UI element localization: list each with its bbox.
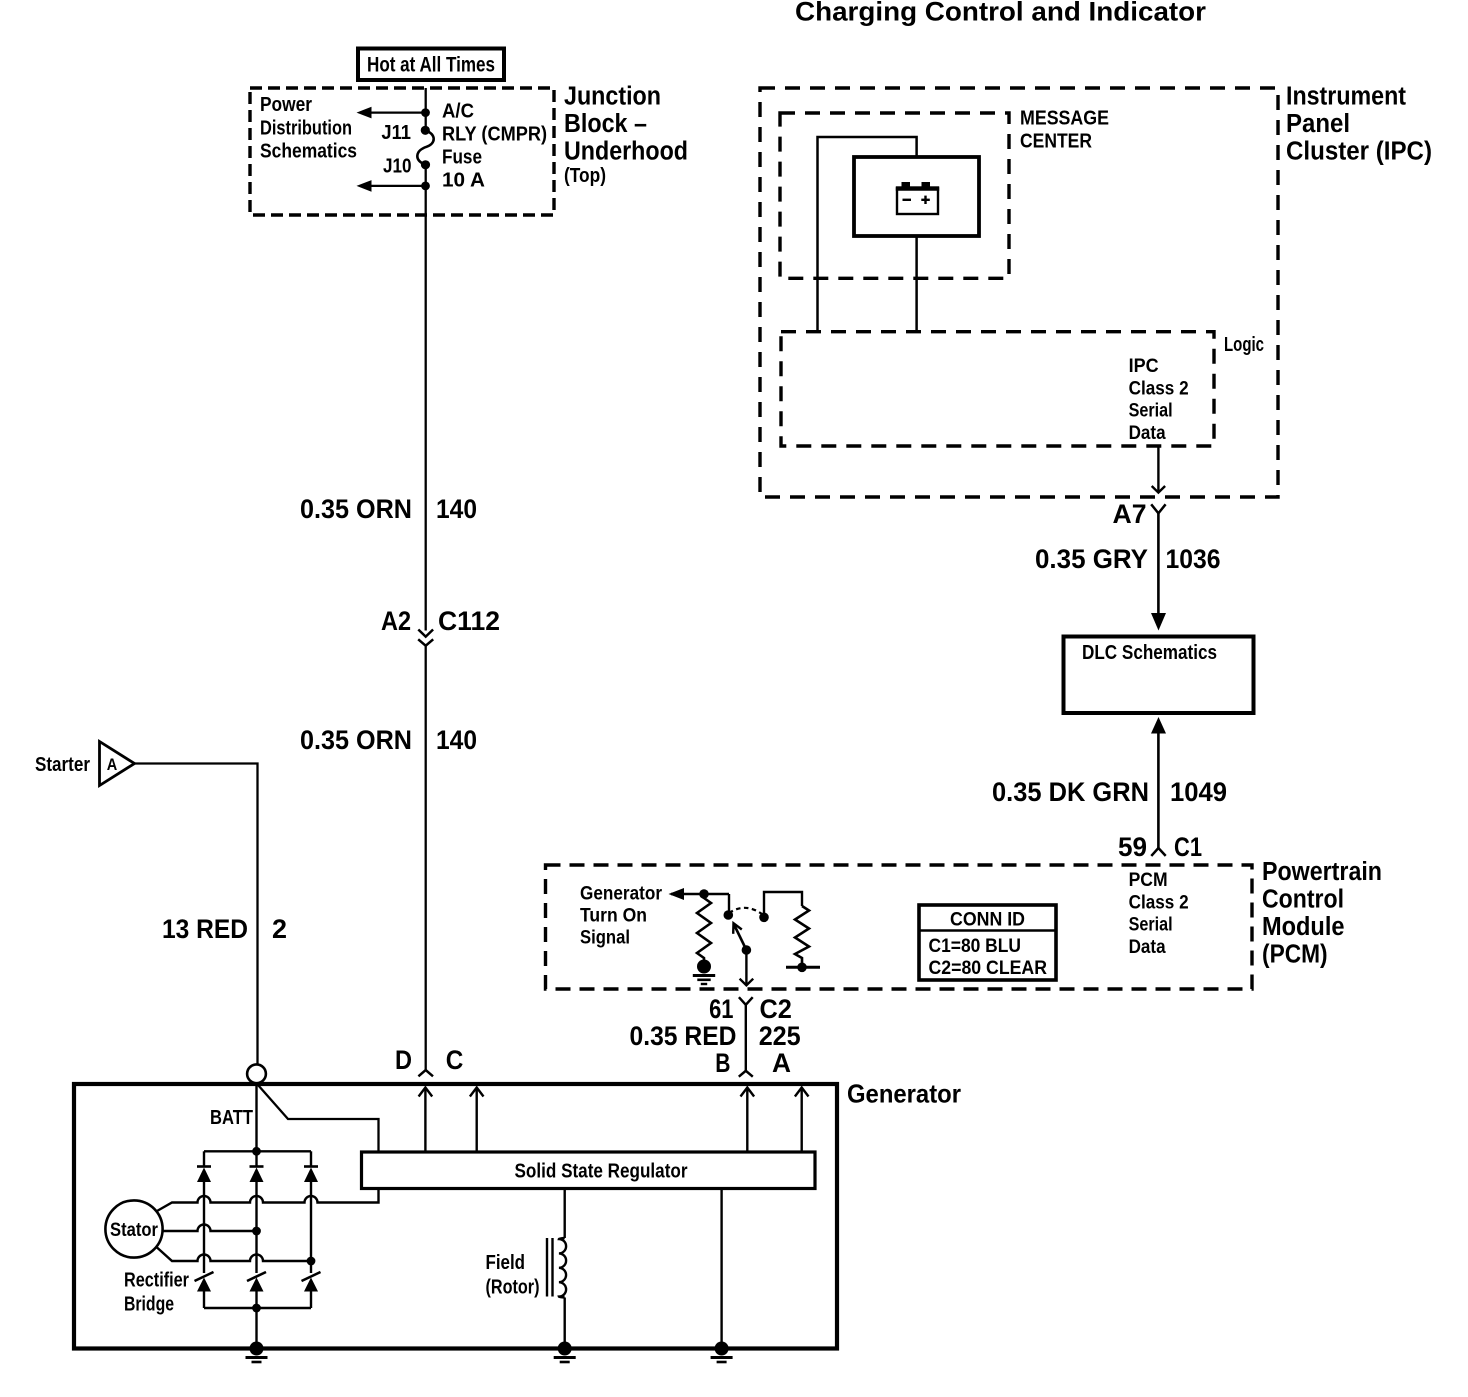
svg-text:Bridge: Bridge	[124, 1294, 174, 1316]
junction block dashed box	[250, 88, 554, 215]
svg-text:Turn On: Turn On	[580, 906, 647, 927]
svg-text:0.35 DK GRN: 0.35 DK GRN	[992, 777, 1149, 807]
svg-text:0.35 ORN: 0.35 ORN	[300, 725, 412, 755]
label Rectifier Bridge	[124, 1270, 189, 1316]
wire to switch left contact	[728, 894, 730, 915]
node fuse top	[421, 108, 430, 135]
svg-text:140: 140	[436, 725, 477, 755]
svg-text:59: 59	[1118, 832, 1147, 862]
connector 61 C2 below PCM	[739, 997, 753, 1005]
label Junction Block - Underhood (Top)	[564, 83, 688, 188]
label A7	[1113, 499, 1147, 529]
terminal circle BATT stud	[247, 1064, 266, 1083]
wire regulator arrow B	[741, 1088, 755, 1153]
battery telltale box	[854, 157, 979, 236]
svg-text:A: A	[772, 1048, 791, 1078]
svg-text:140: 140	[436, 494, 477, 524]
label J10	[383, 156, 412, 178]
svg-text:Data: Data	[1129, 423, 1166, 444]
label PCM Class 2 Serial Data	[1129, 870, 1189, 958]
svg-text:Fuse: Fuse	[442, 147, 482, 169]
terminal bar at R2 bottom	[786, 963, 820, 973]
svg-text:J11: J11	[381, 122, 411, 144]
label BATT	[210, 1107, 253, 1129]
title Charging Control and Indicator	[795, 0, 1206, 27]
svg-text:Control: Control	[1262, 886, 1344, 914]
node fuse bottom	[421, 160, 430, 190]
diode D3 top	[304, 1151, 318, 1273]
battery symbol	[896, 182, 939, 214]
svg-text:Rectifier: Rectifier	[124, 1270, 189, 1292]
switch motion dashed arc	[729, 908, 764, 916]
wire center column bottom	[255, 1308, 257, 1349]
wire label 0.35 RED 225	[630, 1021, 801, 1051]
svg-text:Cluster (IPC): Cluster (IPC)	[1286, 137, 1432, 165]
ground field	[554, 1342, 576, 1363]
connector A7 at IPC edge	[1151, 504, 1165, 513]
svg-text:C112: C112	[438, 606, 500, 636]
diode D4 bottom avalanche	[195, 1272, 214, 1308]
svg-text:C2=80 CLEAR: C2=80 CLEAR	[929, 958, 1048, 979]
wire generator turn on signal with arrow	[669, 888, 730, 900]
label MESSAGE CENTER	[1020, 108, 1109, 153]
label A2 C112	[381, 606, 500, 636]
ground at R1	[693, 960, 715, 985]
wire A7 to DLC with arrow	[1151, 513, 1166, 630]
wire branch to J10	[357, 180, 426, 192]
svg-text:0.35 ORN: 0.35 ORN	[300, 494, 412, 524]
label A/C RLY (CMPR) Fuse 10 A	[442, 101, 547, 192]
svg-text:CONN ID: CONN ID	[950, 910, 1025, 931]
wire battery bottom to logic	[915, 236, 918, 332]
label 59 C1	[1118, 832, 1202, 862]
label IPC Class 2 Serial Data	[1129, 356, 1189, 444]
svg-text:1049: 1049	[1170, 777, 1227, 807]
svg-text:2: 2	[272, 914, 287, 944]
svg-text:61: 61	[709, 994, 733, 1024]
wire battery left loop	[818, 137, 917, 332]
diode D2 top	[250, 1151, 264, 1273]
wire regulator right ground leg	[720, 1189, 722, 1349]
svg-text:Serial: Serial	[1129, 915, 1173, 936]
svg-text:Power: Power	[260, 94, 312, 116]
label B / A	[715, 1048, 791, 1078]
field rotor coil L1	[547, 1189, 566, 1349]
node at resistor R1 top	[699, 889, 709, 899]
hot-at-all-times box	[358, 49, 504, 81]
svg-text:MESSAGE: MESSAGE	[1020, 108, 1109, 130]
svg-text:DLC Schematics: DLC Schematics	[1082, 642, 1217, 664]
svg-text:PCM: PCM	[1129, 870, 1168, 891]
svg-text:0.35 GRY: 0.35 GRY	[1035, 544, 1148, 574]
generator box	[74, 1084, 837, 1349]
connector 59 C1 at PCM edge	[1151, 848, 1165, 856]
svg-text:Class 2: Class 2	[1129, 378, 1189, 399]
resistor R1	[697, 894, 711, 960]
svg-text:C1=80 BLU: C1=80 BLU	[929, 936, 1022, 957]
wire BATT stud to regulator	[258, 1085, 379, 1152]
switch blade with arrow tip	[733, 923, 746, 950]
wire PCM to DLC with arrow	[1151, 717, 1166, 848]
node switch pivot	[742, 945, 752, 955]
svg-text:Generator: Generator	[847, 1079, 961, 1109]
diode D5 bottom avalanche	[247, 1272, 266, 1308]
svg-text:1036: 1036	[1166, 544, 1221, 574]
label J11	[381, 122, 411, 144]
svg-text:B: B	[715, 1048, 730, 1078]
wire logic to IPC edge with arrow	[1152, 446, 1165, 493]
svg-text:C2: C2	[760, 994, 792, 1024]
svg-text:Class 2: Class 2	[1129, 892, 1189, 913]
wire regulator arrow A	[795, 1088, 809, 1153]
svg-text:10 A: 10 A	[442, 170, 485, 192]
stator circle	[105, 1200, 162, 1257]
svg-text:IPC: IPC	[1129, 356, 1159, 377]
svg-text:225: 225	[759, 1021, 801, 1051]
svg-text:Signal: Signal	[580, 928, 630, 949]
svg-text:Powertrain: Powertrain	[1262, 858, 1382, 886]
wire label 0.35 DK GRN 1049	[992, 777, 1227, 807]
svg-text:Distribution: Distribution	[260, 118, 352, 140]
svg-text:0.35 RED: 0.35 RED	[630, 1021, 737, 1051]
label Power Distribution Schematics	[260, 94, 357, 163]
svg-text:A2: A2	[381, 606, 411, 636]
svg-text:(PCM): (PCM)	[1262, 941, 1328, 969]
wire branch to J11	[357, 107, 426, 119]
connector C112 inline	[418, 630, 433, 646]
wire label 0.35 ORN 140 upper	[300, 494, 477, 524]
DLC Schematics box	[1064, 637, 1254, 714]
svg-text:Starter: Starter	[35, 754, 90, 776]
svg-text:Logic: Logic	[1224, 334, 1264, 356]
svg-text:J10: J10	[383, 156, 412, 178]
svg-text:Hot at All Times: Hot at All Times	[367, 54, 495, 77]
svg-text:Solid State Regulator: Solid State Regulator	[515, 1161, 688, 1183]
rectifier top bus	[204, 1147, 311, 1156]
solid state regulator box	[362, 1152, 816, 1189]
wire center column top	[255, 1084, 257, 1152]
svg-text:A: A	[107, 756, 118, 774]
PCM dashed box	[546, 865, 1253, 989]
resistor R2	[795, 906, 809, 967]
wire 61 to generator B	[745, 1005, 747, 1071]
message center dashed box	[780, 113, 1009, 278]
svg-text:Underhood: Underhood	[564, 138, 688, 166]
svg-text:Schematics: Schematics	[260, 141, 357, 163]
stator phase wire 3	[157, 1248, 315, 1266]
wire regulator arrow D	[419, 1088, 433, 1153]
svg-text:13 RED: 13 RED	[162, 914, 248, 944]
svg-text:Charging Control and Indicator: Charging Control and Indicator	[795, 0, 1206, 27]
stator phase wire 1	[157, 1189, 379, 1211]
svg-text:Block –: Block –	[564, 110, 647, 138]
svg-text:C1: C1	[1174, 832, 1202, 862]
fuse A/C RLY 10A	[417, 130, 433, 165]
svg-text:Module: Module	[1262, 913, 1345, 941]
CONN ID table	[919, 905, 1056, 980]
wire right contact loop to resistor R2	[764, 892, 802, 917]
diode D1 top	[197, 1151, 211, 1273]
label Generator	[847, 1079, 961, 1109]
svg-text:Stator: Stator	[110, 1220, 159, 1241]
logic dashed box	[781, 332, 1214, 446]
node switch left contact	[724, 910, 734, 920]
svg-text:D: D	[395, 1045, 412, 1075]
label 61 C2	[709, 994, 792, 1024]
label Logic	[1224, 334, 1264, 356]
ground rectifier	[246, 1342, 268, 1363]
svg-text:CENTER: CENTER	[1020, 131, 1092, 153]
diode D6 bottom avalanche	[302, 1272, 321, 1308]
off-page reference triangle A (starter)	[100, 742, 135, 786]
wire switch pivot to PCM edge with arrow	[740, 950, 754, 985]
svg-text:BATT: BATT	[210, 1107, 253, 1129]
wire starter to generator BATT	[135, 764, 258, 1065]
connector D at generator	[418, 1070, 433, 1076]
wire connector to generator D	[425, 646, 427, 1070]
wire regulator arrow C	[470, 1088, 484, 1153]
svg-text:(Top): (Top)	[564, 165, 606, 187]
IPC dashed box	[760, 88, 1278, 497]
svg-text:Data: Data	[1129, 937, 1166, 958]
label Starter	[35, 754, 90, 776]
svg-text:RLY (CMPR): RLY (CMPR)	[442, 124, 547, 146]
wire label 0.35 ORN 140 lower	[300, 725, 477, 755]
svg-text:Serial: Serial	[1129, 401, 1173, 422]
svg-text:Junction: Junction	[564, 83, 661, 111]
connector B at generator	[739, 1071, 753, 1077]
label Field (Rotor)	[486, 1252, 540, 1299]
svg-text:(Rotor): (Rotor)	[486, 1277, 540, 1299]
svg-text:Field: Field	[486, 1252, 526, 1274]
rectifier bottom bus	[204, 1304, 311, 1313]
label Instrument Panel Cluster (IPC)	[1286, 82, 1432, 165]
svg-text:Generator: Generator	[580, 884, 663, 905]
wire vertical from hot feed	[425, 88, 427, 131]
svg-text:A7: A7	[1113, 499, 1147, 529]
svg-text:A/C: A/C	[442, 101, 474, 123]
label Powertrain Control Module (PCM)	[1262, 858, 1382, 969]
wire fuse down to connector C112	[425, 165, 427, 631]
svg-text:C: C	[446, 1045, 464, 1075]
stator phase wire 2	[163, 1225, 261, 1236]
svg-text:Instrument: Instrument	[1286, 82, 1406, 110]
ground regulator	[711, 1342, 733, 1363]
label D / C	[395, 1045, 463, 1075]
wire label 0.35 GRY 1036	[1035, 544, 1221, 574]
svg-text:Panel: Panel	[1286, 110, 1350, 138]
wire label 13 RED 2	[162, 914, 287, 944]
label Generator Turn On Signal	[580, 884, 663, 949]
node switch right contact	[759, 913, 769, 923]
